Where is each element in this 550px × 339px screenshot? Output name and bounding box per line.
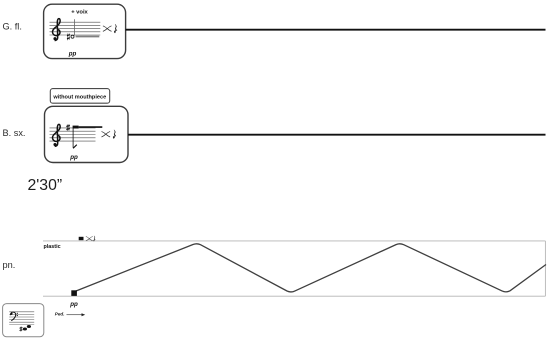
note flag system 2 [73, 145, 77, 149]
sustain line system 2 [79, 126, 103, 128]
cluster note above rail [79, 237, 84, 240]
cue cluster sharp [20, 327, 23, 332]
svg-text:G. fl.: G. fl. [3, 22, 22, 32]
svg-text:B. sx.: B. sx. [3, 128, 26, 138]
sharp accidental system 2 [66, 124, 70, 131]
staff system 1 [50, 22, 101, 35]
treble clef system 1 [52, 19, 60, 41]
svg-text:2'30”: 2'30” [28, 177, 63, 194]
svg-text:pn.: pn. [3, 260, 16, 270]
svg-text:pp: pp [69, 301, 78, 308]
svg-text:without mouthpiece: without mouthpiece [52, 94, 106, 100]
note stem system 1 [73, 19, 75, 35]
harmonic note head (open circle) system 1 [71, 35, 74, 38]
note stem system 2 [72, 128, 74, 147]
square note head system 2 [73, 126, 79, 129]
treble clef system 2 [52, 124, 60, 146]
cue box frame [3, 304, 44, 337]
quarter rest system 2 [113, 130, 116, 139]
long sustain line 1 [126, 29, 546, 31]
piano top rail line [43, 240, 545, 242]
without mouthpiece box [50, 89, 109, 104]
cue staff [9, 312, 34, 322]
bowtie dynamic piano top [86, 236, 93, 240]
svg-text:Ped.: Ped. [55, 312, 65, 317]
sharp accidental system 1 [67, 33, 70, 40]
sustain line system 1 [76, 36, 100, 38]
svg-text:pp: pp [69, 154, 78, 161]
piano bottom rail line [43, 295, 545, 297]
zigzag glissando line [76, 244, 546, 292]
bowtie dynamic system 1 [103, 26, 112, 32]
tiny rest piano top [94, 236, 96, 242]
bowtie dynamic system 2 [102, 131, 111, 137]
quarter rest system 1 [114, 24, 117, 33]
long sustain line 2 [128, 134, 546, 136]
cue cluster note low [23, 328, 27, 331]
bass clef [10, 312, 18, 321]
svg-text:pp: pp [68, 50, 77, 57]
cue cluster note high [27, 325, 31, 328]
start square note piano [71, 290, 77, 296]
piano right rail line [544, 241, 546, 296]
staff system 2 [50, 128, 96, 141]
box frame system 1 [44, 4, 126, 58]
svg-text:+ voix: + voix [71, 9, 88, 15]
svg-text:plastic: plastic [44, 244, 61, 250]
cue ledger line [9, 324, 34, 326]
pedal arrow [67, 313, 86, 316]
box frame system 2 [45, 106, 129, 162]
